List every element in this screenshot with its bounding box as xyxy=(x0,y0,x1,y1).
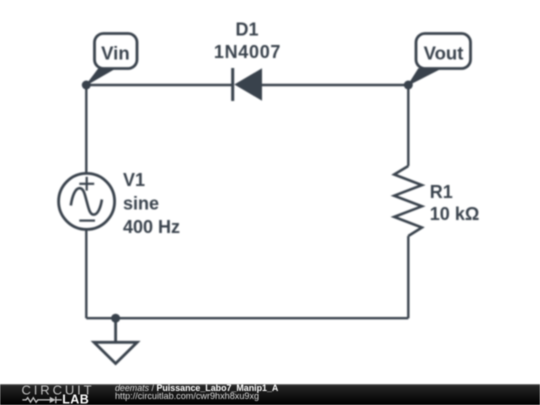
svg-text:D1: D1 xyxy=(235,20,258,40)
wire right upper (Vout node to R1 top) xyxy=(407,85,409,166)
svg-text:1N4007: 1N4007 xyxy=(214,42,281,62)
svg-text:Vout: Vout xyxy=(424,42,464,63)
net label flag Vout xyxy=(408,34,470,86)
CircuitLab logo schematic squiggle (resistor + diode glyph) xyxy=(22,397,61,404)
diode D1 (cathode bar) xyxy=(231,68,234,101)
svg-text:LAB: LAB xyxy=(62,393,89,405)
diode D1 (anode triangle) xyxy=(234,68,262,100)
node junction at ground tap xyxy=(111,314,120,323)
svg-text:Vin: Vin xyxy=(101,42,129,63)
voltage source V1 (circle body) xyxy=(59,173,115,229)
wire left lower (V1 bottom to bottom rail) xyxy=(85,229,87,319)
wire top-right segment (D1 anode to Vout node) xyxy=(262,84,408,86)
svg-text:400 Hz: 400 Hz xyxy=(123,217,180,237)
ground symbol xyxy=(94,318,137,363)
node junction at Vin xyxy=(82,81,91,90)
net label flag Vin xyxy=(86,34,137,86)
svg-text:V1: V1 xyxy=(123,170,145,190)
V1 minus sign xyxy=(79,220,95,222)
svg-text:10 kΩ: 10 kΩ xyxy=(430,204,479,224)
wire bottom rail xyxy=(86,317,408,319)
svg-text:R1: R1 xyxy=(430,182,453,202)
CircuitLab logo diode triangle xyxy=(50,397,56,403)
footer bar background xyxy=(0,384,540,405)
V1 sine wave glyph xyxy=(71,188,102,214)
svg-text:sine: sine xyxy=(123,193,159,213)
node junction at Vout xyxy=(404,81,413,90)
wire right lower (R1 bottom to bottom rail) xyxy=(407,236,409,318)
wire top-left segment (Vin node to D1 cathode) xyxy=(86,84,231,86)
svg-text:http://circuitlab.com/cwr9hxh8: http://circuitlab.com/cwr9hxh8xu9xg xyxy=(115,391,259,401)
resistor R1 (zigzag) xyxy=(394,166,422,236)
V1 plus sign xyxy=(79,177,94,191)
wire left upper (Vin node down to V1 top) xyxy=(85,85,87,175)
